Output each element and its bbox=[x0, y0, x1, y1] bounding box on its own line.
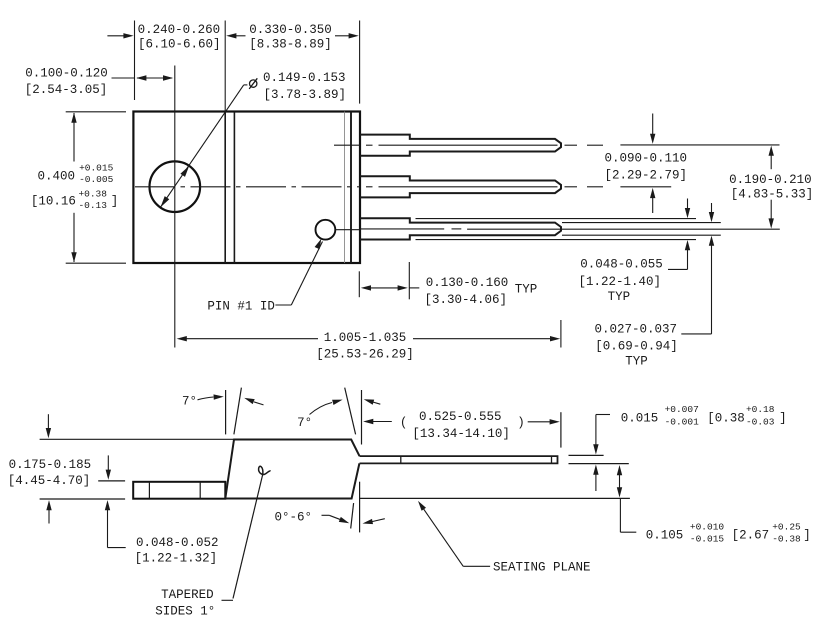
lead 3 wide-top extension line bbox=[416, 218, 697, 220]
dim 1.005-1.035 dimension line and arrows bbox=[186, 338, 318, 340]
dim 0.240-0.260 extension line left (body left edge) bbox=[134, 21, 136, 101]
mounting hole bbox=[150, 161, 201, 212]
svg-text:7°: 7° bbox=[297, 416, 312, 430]
lead tick near tip bbox=[551, 456, 553, 463]
svg-text:-0.001: -0.001 bbox=[665, 416, 700, 427]
draft angle 0-6 deg: vertical extension line bbox=[359, 482, 361, 533]
dim 0.130-0.160 extension lines bbox=[358, 271, 360, 297]
7 deg left leader arrow bbox=[198, 397, 214, 400]
arrow at 0-6 vertical line bbox=[372, 519, 385, 522]
svg-text:[0.38: [0.38 bbox=[707, 411, 745, 425]
svg-text:[2.67: [2.67 bbox=[732, 528, 770, 542]
dim 0.240-0.260 arrow left bbox=[107, 35, 124, 37]
dim 0.048-0.052 arrows bbox=[107, 455, 109, 471]
seating plane leader arrow bbox=[463, 565, 490, 567]
lead tick at step bbox=[400, 456, 402, 463]
dim 0.015 leader and arrows bbox=[596, 414, 610, 416]
svg-text:0.400: 0.400 bbox=[38, 170, 76, 184]
svg-text:TYP: TYP bbox=[625, 355, 648, 369]
svg-text:]: ] bbox=[779, 411, 787, 425]
svg-text:[13.34-14.10]: [13.34-14.10] bbox=[412, 427, 510, 441]
0-6 deg leader arrow bbox=[322, 514, 330, 516]
lead 2 centerline extension bbox=[620, 186, 671, 188]
lead (side view) bbox=[360, 456, 558, 463]
dim 0.027-0.037 arrows bbox=[711, 203, 713, 214]
svg-text:+0.015: +0.015 bbox=[79, 163, 114, 174]
svg-text:0.048-0.055: 0.048-0.055 bbox=[580, 258, 663, 272]
svg-text:0.027-0.037: 0.027-0.037 bbox=[595, 322, 678, 336]
draft angle 0-6 deg: slant extension line bbox=[351, 503, 354, 528]
dim 0.105 leader bbox=[619, 498, 621, 532]
svg-text:-0.015: -0.015 bbox=[690, 534, 725, 545]
seating-level extension line (left) bbox=[40, 498, 126, 500]
svg-text:[3.30-4.06]: [3.30-4.06] bbox=[424, 293, 507, 307]
pin1 to body edge line bbox=[335, 229, 360, 231]
svg-text:0.149-0.153: 0.149-0.153 bbox=[263, 71, 346, 85]
dim 0.130-0.160 arrows bbox=[368, 287, 400, 289]
svg-text:0.130-0.160: 0.130-0.160 bbox=[426, 276, 509, 290]
lead 3 centerline bbox=[360, 228, 444, 230]
dim 0.400 extension lines bbox=[66, 111, 126, 113]
svg-text:[4.83-5.33]: [4.83-5.33] bbox=[731, 188, 814, 202]
svg-text:): ) bbox=[517, 416, 525, 430]
svg-text:-0.13: -0.13 bbox=[78, 200, 107, 211]
svg-text:+0.25: +0.25 bbox=[772, 521, 801, 532]
svg-text:7°: 7° bbox=[182, 395, 197, 409]
dim 0.048-0.055 arrows bbox=[687, 199, 689, 211]
svg-text:]: ] bbox=[111, 195, 119, 209]
lead 3 centerline extension (long) bbox=[467, 228, 780, 230]
taper angle 7 deg right pair: slanted line bbox=[345, 388, 356, 435]
svg-text:+0.010: +0.010 bbox=[690, 521, 725, 532]
lead 2 (middle) outline bbox=[360, 176, 561, 197]
dim 0.190-0.210 dimension line and arrows bbox=[770, 154, 772, 169]
dim arrow at groove (left-pointing) bbox=[226, 33, 236, 38]
svg-text:TYP: TYP bbox=[515, 283, 538, 297]
dim extension line at body right edge bbox=[359, 21, 361, 104]
lead 3 narrow-top extension line bbox=[562, 222, 721, 224]
svg-text:-0.03: -0.03 bbox=[746, 416, 775, 427]
taper angle 7 deg right pair: vertical ref line bbox=[361, 390, 363, 445]
dim 0.015 extension lines bbox=[569, 454, 604, 456]
body-top extension line (left) bbox=[40, 438, 233, 440]
lead 3 (bottom) outline bbox=[360, 218, 561, 239]
lead 1 centerline stub inside body bbox=[334, 144, 360, 146]
body inner edge line (thin) bbox=[344, 112, 346, 264]
body horizontal centerline (dash-dot) bbox=[135, 186, 175, 188]
svg-text:[3.78-3.89]: [3.78-3.89] bbox=[264, 88, 347, 102]
dim 0.330-0.350 arrow right bbox=[335, 35, 350, 37]
svg-text:1.005-1.035: 1.005-1.035 bbox=[324, 331, 407, 345]
hole diameter leader line bbox=[161, 85, 244, 207]
package body (top view) bbox=[133, 112, 360, 264]
svg-text:[10.16: [10.16 bbox=[31, 195, 76, 209]
svg-text:(: ( bbox=[400, 416, 408, 430]
svg-text:[2.29-2.79]: [2.29-2.79] bbox=[604, 169, 687, 183]
svg-text:+0.18: +0.18 bbox=[746, 404, 775, 415]
body groove line right bbox=[233, 112, 235, 264]
body inner edge line bbox=[350, 112, 352, 264]
dim text dia 0.149-0.153 (phi symbol) bbox=[250, 80, 257, 87]
svg-text:[6.10-6.60]: [6.10-6.60] bbox=[138, 37, 221, 51]
lead 3 narrow-bottom extension line bbox=[562, 234, 721, 236]
svg-text:+0.007: +0.007 bbox=[665, 404, 699, 415]
svg-text:TYP: TYP bbox=[608, 290, 631, 304]
dim extension line at groove bbox=[224, 21, 226, 112]
svg-text:0.048-0.052: 0.048-0.052 bbox=[136, 536, 219, 550]
svg-text:0.090-0.110: 0.090-0.110 bbox=[604, 151, 687, 165]
svg-text:[1.22-1.32]: [1.22-1.32] bbox=[135, 551, 218, 565]
taper angle 7 deg left pair: slanted line bbox=[234, 388, 242, 435]
svg-text:[25.53-26.29]: [25.53-26.29] bbox=[316, 347, 414, 361]
tab-top tick line bbox=[98, 480, 125, 482]
hole edge line in tab right bbox=[199, 482, 201, 499]
lead 1 centerline bbox=[366, 144, 373, 146]
dim 1.005-1.035 extension line right bbox=[560, 320, 562, 348]
taper leader line bbox=[233, 475, 263, 599]
svg-text:-0.38: -0.38 bbox=[772, 534, 801, 545]
dim 0.400 dimension line and arrows bbox=[73, 113, 75, 162]
svg-text:SEATING PLANE: SEATING PLANE bbox=[493, 561, 591, 575]
svg-text:0.175-0.185: 0.175-0.185 bbox=[9, 458, 92, 472]
hole edge line in tab left bbox=[148, 482, 150, 499]
dim 0.525-0.555 dimension arrows bbox=[363, 419, 373, 424]
svg-text:0.240-0.260: 0.240-0.260 bbox=[138, 23, 221, 37]
taper angle 7 deg left pair: vertical ref line bbox=[225, 390, 227, 434]
arrow at right vertical line bbox=[372, 402, 381, 405]
svg-text:+0.38: +0.38 bbox=[78, 188, 107, 199]
svg-text:[8.38-8.89]: [8.38-8.89] bbox=[249, 37, 332, 51]
dim 0.100-0.120 leader and arrows bbox=[112, 77, 135, 79]
seating plane line bbox=[359, 497, 630, 499]
hole diameter arrowheads bbox=[180, 166, 189, 177]
dim 0.090-0.110 arrows bbox=[652, 114, 654, 136]
svg-text:[1.22-1.40]: [1.22-1.40] bbox=[578, 275, 661, 289]
lead 1 (top) outline bbox=[360, 135, 561, 156]
pin 1 index circle bbox=[316, 220, 336, 240]
svg-text:PIN #1 ID: PIN #1 ID bbox=[207, 299, 275, 313]
svg-text:0°-6°: 0°-6° bbox=[274, 511, 312, 525]
lead 3 wide-bottom extension line bbox=[416, 239, 697, 241]
svg-text:SIDES 1°: SIDES 1° bbox=[155, 604, 215, 618]
arrow at left slant bbox=[254, 402, 264, 405]
svg-text:0.525-0.555: 0.525-0.555 bbox=[419, 410, 502, 424]
dim 0.525-0.555 extension line bbox=[560, 412, 562, 447]
svg-text:[2.54-3.05]: [2.54-3.05] bbox=[25, 83, 108, 97]
svg-text:0.100-0.120: 0.100-0.120 bbox=[25, 67, 108, 81]
7 deg right leader arrow bbox=[310, 403, 333, 415]
lead 2 centerline bbox=[366, 186, 373, 188]
svg-text:[0.69-0.94]: [0.69-0.94] bbox=[595, 339, 678, 353]
lead 1 centerline extension (long) bbox=[620, 144, 779, 146]
svg-text:TAPERED: TAPERED bbox=[161, 588, 214, 602]
svg-text:0.330-0.350: 0.330-0.350 bbox=[249, 23, 332, 37]
svg-text:0.015: 0.015 bbox=[621, 411, 659, 425]
svg-text:]: ] bbox=[803, 528, 811, 542]
hole vertical centerline bbox=[174, 66, 176, 348]
dim 0.105 arrows bbox=[617, 465, 622, 475]
svg-text:[4.45-4.70]: [4.45-4.70] bbox=[8, 474, 91, 488]
dim 0.175-0.185 arrows bbox=[47, 414, 49, 430]
molded body (side view) bbox=[225, 440, 359, 499]
pin1 leader line bbox=[275, 304, 291, 306]
squiggle on taper leader bbox=[259, 466, 271, 474]
svg-text:-0.005: -0.005 bbox=[79, 174, 114, 185]
svg-text:0.190-0.210: 0.190-0.210 bbox=[729, 173, 812, 187]
tab (side view) bbox=[133, 482, 225, 499]
body groove line left bbox=[224, 112, 226, 264]
svg-text:0.105: 0.105 bbox=[646, 528, 684, 542]
